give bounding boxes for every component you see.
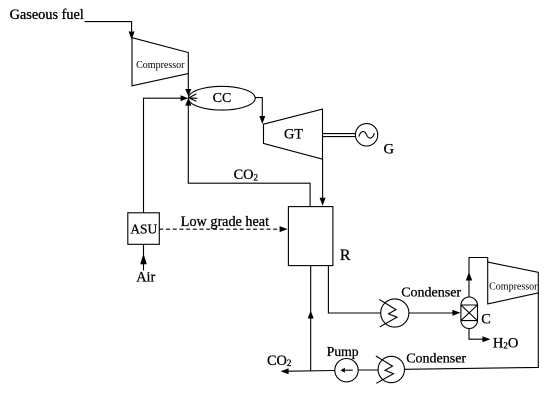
wire pump to CO2 outlet [289,370,335,373]
wire GT exhaust to R [322,159,324,198]
wire R bottom to condenser1 [328,266,380,313]
svg-text:Gaseous fuel: Gaseous fuel [10,7,84,23]
wire air inlet [143,244,145,270]
svg-text:R: R [340,246,351,264]
condenser 1 [381,299,409,327]
wire compressor2 down to bottom line [405,293,538,369]
wire condenser2 to pump [358,369,378,371]
reactor R [288,207,333,266]
condenser 2 [378,356,404,382]
svg-text:ASU: ASU [130,222,157,237]
turbine GT [264,109,323,159]
ASU unit [128,213,160,245]
compressor C2 (CO2) [488,262,539,304]
dashed wire low grade heat ASU to R [159,228,279,230]
svg-text:C: C [481,312,491,328]
svg-text:CO2: CO2 [234,167,258,183]
generator G [355,124,377,146]
wire H2O outlet [469,329,483,340]
svg-text:Air: Air [136,270,155,286]
wire condenser1 to separator C [409,312,453,314]
wire CO2 recycle R to CC [188,105,310,207]
wire C to compressor2 [469,258,488,298]
svg-text:Condenser: Condenser [406,351,466,366]
svg-text:H2O: H2O [493,335,518,351]
pump [335,359,358,382]
wire recycle return into R bottom [310,266,312,371]
compressor C1 (fuel) [132,38,188,86]
svg-text:CO2: CO2 [267,353,291,369]
separator C [461,297,478,329]
wire O2 from ASU to CC [144,98,182,213]
svg-text:GT: GT [284,126,303,142]
wire fuel inlet [85,22,132,33]
svg-text:CC: CC [213,91,232,106]
svg-text:Pump: Pump [327,344,359,359]
svg-text:G: G [384,141,394,157]
svg-text:Compressor: Compressor [136,60,185,71]
combustion chamber CC [188,86,255,110]
svg-text:Low grade heat: Low grade heat [181,214,269,230]
wire compressor to CC [187,74,189,90]
wire CC to GT [255,98,262,117]
svg-text:Condenser: Condenser [401,286,461,301]
shaft GT to G [323,134,356,137]
svg-text:Compressor: Compressor [489,281,538,292]
